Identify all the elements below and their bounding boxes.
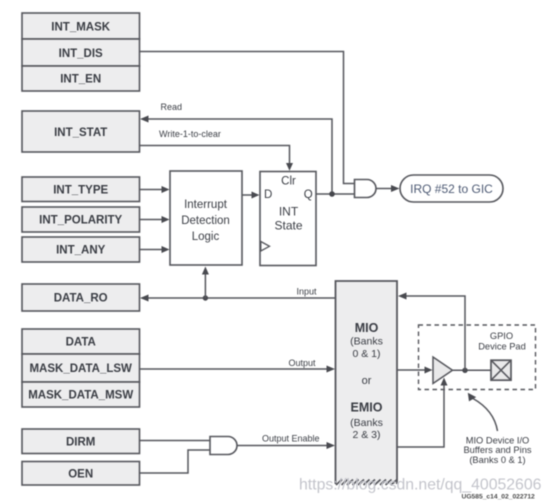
- svg-text:or: or: [362, 375, 372, 387]
- wire DIRM to G2 top input: [140, 440, 211, 442]
- junction node at pad wire: [462, 368, 467, 373]
- svg-text:DIRM: DIRM: [66, 437, 95, 449]
- callout curved arrow to dashed box: [468, 393, 498, 431]
- GPIO device pad symbol (box with X): [491, 360, 511, 380]
- register INT_POLARITY: [22, 207, 140, 232]
- svg-text:IRQ #52 to GIC: IRQ #52 to GIC: [410, 182, 493, 196]
- junction node on Input wire: [203, 295, 208, 300]
- buffer U3 (output driver triangle): [433, 357, 453, 384]
- svg-text:Detection: Detection: [181, 215, 230, 227]
- svg-text:UG585_c14_02_022712: UG585_c14_02_022712: [462, 494, 536, 501]
- wire INT_POLARITY to U1: [140, 216, 170, 223]
- wire G2 output to MIO (Output Enable): [237, 442, 335, 449]
- svg-text:Clr: Clr: [281, 176, 296, 188]
- svg-text:MASK_DATA_MSW: MASK_DATA_MSW: [28, 390, 133, 402]
- register INT_MASK: [22, 13, 140, 39]
- svg-text:OEN: OEN: [68, 469, 93, 481]
- svg-text:MIO: MIO: [355, 321, 379, 335]
- register INT_ANY: [22, 237, 140, 262]
- wire INT_ANY to U1: [140, 246, 170, 253]
- label MIO Device I/O Buffers and Pins (Banks 0 & 1): [463, 436, 531, 465]
- svg-text:GPIO: GPIO: [490, 331, 513, 341]
- svg-text:State: State: [274, 219, 302, 233]
- svg-text:INT_TYPE: INT_TYPE: [53, 185, 108, 197]
- wire Input branch up into U1: [202, 267, 209, 299]
- block MIO/EMIO banks: [336, 281, 398, 484]
- register INT_TYPE: [22, 177, 140, 202]
- svg-text:2 & 3): 2 & 3): [352, 429, 380, 441]
- svg-text:MIO Device I/O: MIO Device I/O: [466, 436, 530, 446]
- register INT_EN: [22, 66, 140, 91]
- svg-text:INT_DIS: INT_DIS: [59, 48, 103, 60]
- wire feedback pad to MIO input: [398, 293, 465, 371]
- svg-text:INT: INT: [279, 205, 299, 219]
- junction node on Q wire: [329, 191, 335, 197]
- wire INT_DIS to G1 top input: [140, 52, 355, 184]
- svg-text:MASK_DATA_LSW: MASK_DATA_LSW: [29, 363, 132, 375]
- svg-text:Buffers and Pins: Buffers and Pins: [463, 445, 531, 455]
- svg-text:Output Enable: Output Enable: [262, 434, 320, 444]
- svg-text:INT_MASK: INT_MASK: [51, 22, 110, 34]
- wire Read: Q node up and left into INT_STAT: [140, 116, 332, 195]
- wire U1 to flip-flop D input: [242, 192, 260, 199]
- wire Write-1-to-clear into flip-flop Clr: [140, 146, 294, 171]
- svg-text:Logic: Logic: [192, 231, 220, 243]
- register DIRM: [22, 429, 140, 454]
- wire output-enable from MIO to buffer control: [397, 378, 448, 448]
- svg-text:https://blog.csdn.net/qq_40052: https://blog.csdn.net/qq_40052606: [299, 477, 542, 494]
- register MASK_DATA_LSW: [22, 354, 140, 382]
- oval IRQ #52 to GIC: [400, 175, 503, 202]
- wire G1 output to IRQ oval: [376, 185, 400, 192]
- register OEN: [22, 462, 140, 486]
- register INT_STAT: [22, 111, 140, 152]
- svg-text:INT_STAT: INT_STAT: [54, 127, 107, 139]
- wire OEN to G2 bottom input: [140, 450, 211, 473]
- register MASK_DATA_MSW: [22, 382, 140, 407]
- register INT_DIS: [22, 39, 140, 66]
- dashed boundary box MIO device I/O buffers: [419, 325, 536, 390]
- svg-text:Interrupt: Interrupt: [184, 199, 228, 211]
- wire buffer U3 to GPIO pad: [453, 369, 492, 371]
- register DATA_RO: [22, 284, 140, 311]
- svg-text:Read: Read: [161, 102, 183, 112]
- svg-text:D: D: [264, 189, 272, 201]
- svg-text:Write-1-to-clear: Write-1-to-clear: [159, 129, 221, 139]
- svg-text:INT_POLARITY: INT_POLARITY: [39, 215, 122, 227]
- svg-text:0 & 1): 0 & 1): [352, 348, 380, 360]
- svg-text:Device Pad: Device Pad: [478, 342, 526, 352]
- svg-text:(Banks: (Banks: [350, 417, 383, 429]
- svg-text:Input: Input: [297, 287, 318, 297]
- svg-text:DATA: DATA: [66, 337, 96, 349]
- svg-text:DATA_RO: DATA_RO: [54, 293, 108, 305]
- hatched bottom edge of MIO block: [336, 480, 397, 486]
- svg-text:INT_ANY: INT_ANY: [56, 245, 106, 257]
- wire Input: MIO to DATA_RO: [140, 295, 336, 302]
- svg-text:Q: Q: [304, 189, 313, 201]
- svg-text:(Banks: (Banks: [350, 336, 383, 348]
- flip-flop U2 INT State: [260, 172, 316, 266]
- and-gate G2 (output enable): [210, 437, 237, 455]
- and-gate G1: [355, 180, 377, 198]
- block U1 Interrupt Detection Logic: [170, 171, 242, 265]
- svg-text:EMIO: EMIO: [351, 401, 383, 415]
- wire Output: MASK_DATA_LSW to MIO: [140, 366, 336, 373]
- wire INT_TYPE to U1: [140, 186, 170, 193]
- svg-text:INT_EN: INT_EN: [60, 74, 101, 86]
- svg-text:(Banks 0 & 1): (Banks 0 & 1): [469, 455, 525, 465]
- wire Q output to G1 bottom input: [316, 193, 355, 195]
- register DATA: [22, 329, 140, 354]
- wire MIO to buffer U3: [397, 367, 433, 374]
- svg-text:Output: Output: [289, 358, 317, 368]
